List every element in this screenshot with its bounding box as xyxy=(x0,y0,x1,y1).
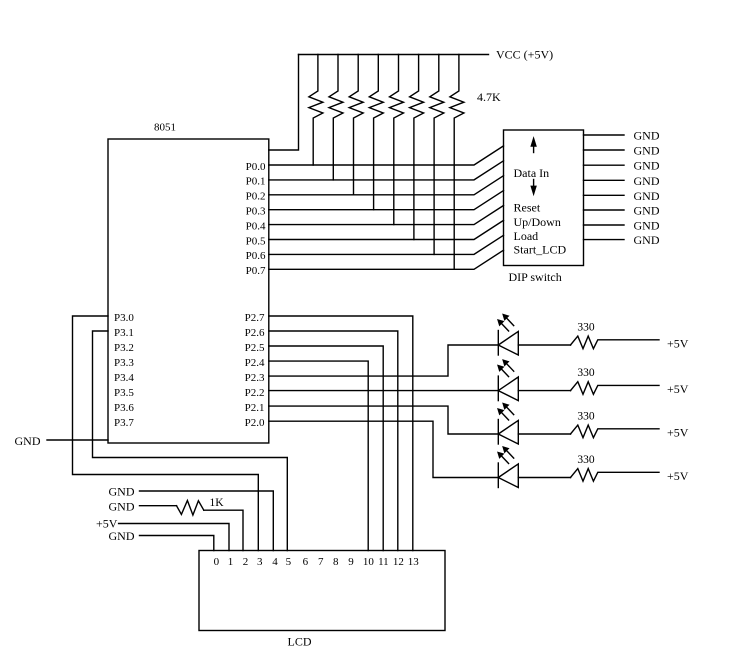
resistor R10 330 xyxy=(571,382,660,395)
wire GND to LCD pin 4 xyxy=(140,491,274,551)
resistor R7 4.7K pull-up xyxy=(430,55,444,255)
wire P0.3 to DIP switch xyxy=(269,191,504,210)
svg-text:3: 3 xyxy=(257,556,263,568)
resistor R1 4.7K pull-up xyxy=(309,55,323,166)
svg-text:330: 330 xyxy=(577,454,595,466)
LCD module xyxy=(199,551,445,631)
wire GND to LCD pin 0 xyxy=(140,536,214,551)
wire LED D2 to resistor xyxy=(518,390,570,392)
svg-text:GND: GND xyxy=(634,219,660,233)
arrow up (Data In) xyxy=(533,144,535,153)
svg-text:GND: GND xyxy=(15,434,41,448)
svg-text:P2.1: P2.1 xyxy=(245,402,265,414)
LED D4 xyxy=(498,447,518,487)
wire P2.7 to LCD pin 13 xyxy=(269,316,413,551)
svg-text:P2.6: P2.6 xyxy=(245,327,265,339)
wire GND to resistor 1K xyxy=(140,505,177,507)
resistor R2 4.7K pull-up xyxy=(329,55,343,180)
wire LED D4 to resistor xyxy=(518,477,570,479)
LED D1 xyxy=(498,315,518,355)
svg-text:GND: GND xyxy=(634,189,660,203)
wire DIP switch pin to GND 2 xyxy=(584,149,625,151)
svg-text:330: 330 xyxy=(577,410,595,422)
svg-text:Up/Down: Up/Down xyxy=(514,215,561,229)
svg-text:VCC (+5V): VCC (+5V) xyxy=(496,48,553,62)
svg-text:P0.6: P0.6 xyxy=(246,250,266,262)
svg-text:P2.3: P2.3 xyxy=(245,372,265,384)
resistor R6 4.7K pull-up xyxy=(410,55,424,240)
svg-text:P3.5: P3.5 xyxy=(114,387,134,399)
svg-text:P3.4: P3.4 xyxy=(114,372,134,384)
wire P0.6 to DIP switch xyxy=(269,235,504,254)
svg-text:P3.2: P3.2 xyxy=(114,342,134,354)
svg-text:+5V: +5V xyxy=(667,337,689,351)
svg-text:P3.7: P3.7 xyxy=(114,417,134,429)
wire P0.7 to DIP switch xyxy=(269,250,504,269)
svg-text:P2.7: P2.7 xyxy=(245,312,265,324)
wire P0.1 to DIP switch xyxy=(269,161,504,180)
wire P3.0 to LCD pin 3 xyxy=(73,316,259,551)
wire P2.5 to LCD pin 11 xyxy=(269,346,383,551)
svg-text:+5V: +5V xyxy=(667,426,689,440)
wire LED D1 to resistor xyxy=(518,344,570,346)
IC U1 8051 xyxy=(108,139,269,443)
wire P2.6 to LCD pin 12 xyxy=(269,331,398,551)
wire P2.0 to LED D4 xyxy=(269,421,499,477)
svg-text:5: 5 xyxy=(286,556,292,568)
LED D3 xyxy=(498,404,518,444)
resistor R3 4.7K pull-up xyxy=(349,55,363,195)
wire VCC rail xyxy=(299,54,489,56)
svg-text:GND: GND xyxy=(634,144,660,158)
wire P2.3 to LED D1 xyxy=(269,345,499,376)
svg-text:12: 12 xyxy=(393,556,404,568)
svg-text:P3.6: P3.6 xyxy=(114,402,134,414)
svg-text:9: 9 xyxy=(348,556,354,568)
resistor R12 330 xyxy=(571,469,660,482)
svg-text:Reset: Reset xyxy=(514,201,541,215)
svg-text:GND: GND xyxy=(634,174,660,188)
svg-text:GND: GND xyxy=(109,500,135,514)
svg-text:P0.4: P0.4 xyxy=(246,220,266,232)
svg-text:Data In: Data In xyxy=(514,166,550,180)
svg-text:GND: GND xyxy=(634,129,660,143)
svg-text:6: 6 xyxy=(303,556,309,568)
svg-text:P2.4: P2.4 xyxy=(245,357,265,369)
LED D2 xyxy=(498,360,518,400)
wire P0.2 to DIP switch xyxy=(269,176,504,195)
svg-text:P0.0: P0.0 xyxy=(246,161,266,173)
svg-text:+5V: +5V xyxy=(667,469,689,483)
resistor R9 330 xyxy=(571,336,660,349)
wire VCC rail to 8051 VCC pin xyxy=(269,55,299,151)
wire DIP switch pin to GND 3 xyxy=(584,164,625,166)
svg-text:P0.1: P0.1 xyxy=(246,176,266,188)
svg-text:Start_LCD: Start_LCD xyxy=(514,243,567,257)
wire P2.4 to LCD pin 10 xyxy=(269,361,368,550)
DIP switch S1 xyxy=(504,130,584,266)
svg-text:Load: Load xyxy=(514,229,539,243)
svg-text:DIP switch: DIP switch xyxy=(509,270,562,284)
svg-text:+5V: +5V xyxy=(667,382,689,396)
resistor R8 4.7K pull-up xyxy=(450,55,464,270)
wire DIP switch pin to GND 8 xyxy=(584,239,625,241)
svg-text:P3.1: P3.1 xyxy=(114,327,134,339)
svg-text:330: 330 xyxy=(577,367,595,379)
wire P2.1 to LED D3 xyxy=(269,406,499,434)
wire DIP switch pin to GND 4 xyxy=(584,179,625,181)
svg-text:4.7K: 4.7K xyxy=(477,90,501,104)
svg-text:P0.5: P0.5 xyxy=(246,235,266,247)
svg-text:GND: GND xyxy=(634,204,660,218)
svg-text:GND: GND xyxy=(634,233,660,247)
svg-text:P0.2: P0.2 xyxy=(246,191,266,203)
wire DIP switch pin to GND 5 xyxy=(584,194,625,196)
svg-text:13: 13 xyxy=(408,556,420,568)
wire resistor 1K to LCD pin 2 xyxy=(204,510,243,550)
arrow down (Data In) xyxy=(533,180,535,189)
resistor R13 1K xyxy=(177,501,204,516)
svg-text:0: 0 xyxy=(214,556,220,568)
svg-text:11: 11 xyxy=(378,556,389,568)
wire P0.5 to DIP switch xyxy=(269,220,504,239)
svg-text:P0.7: P0.7 xyxy=(246,265,266,277)
svg-text:P3.3: P3.3 xyxy=(114,357,134,369)
svg-text:1: 1 xyxy=(228,556,234,568)
resistor R4 4.7K pull-up xyxy=(369,55,383,210)
svg-text:LCD: LCD xyxy=(288,635,312,649)
wire P0.0 to DIP switch xyxy=(269,146,504,165)
svg-text:GND: GND xyxy=(634,159,660,173)
svg-text:P2.5: P2.5 xyxy=(245,342,265,354)
svg-text:1K: 1K xyxy=(210,497,225,509)
svg-text:P2.2: P2.2 xyxy=(245,387,265,399)
resistor R11 330 xyxy=(571,425,660,438)
svg-text:8: 8 xyxy=(333,556,339,568)
svg-text:8051: 8051 xyxy=(154,122,176,134)
svg-text:7: 7 xyxy=(318,556,324,568)
svg-text:P2.0: P2.0 xyxy=(245,417,265,429)
svg-text:330: 330 xyxy=(577,321,595,333)
wire P3.1 to LCD pin 5 xyxy=(93,331,288,551)
wire DIP switch pin to GND 1 xyxy=(584,134,625,136)
wire DIP switch pin to GND 7 xyxy=(584,224,625,226)
svg-text:GND: GND xyxy=(109,529,135,543)
svg-text:2: 2 xyxy=(243,556,249,568)
resistor R5 4.7K pull-up xyxy=(390,55,404,225)
svg-text:GND: GND xyxy=(109,485,135,499)
wire P2.2 to LED D2 xyxy=(269,390,499,392)
wire +5V to LCD pin 1 xyxy=(119,524,229,551)
wire GND to 8051 xyxy=(47,439,108,441)
svg-text:P0.3: P0.3 xyxy=(246,206,266,218)
svg-text:4: 4 xyxy=(272,556,278,568)
wire P0.4 to DIP switch xyxy=(269,206,504,225)
wire DIP switch pin to GND 6 xyxy=(584,209,625,211)
svg-text:P3.0: P3.0 xyxy=(114,312,134,324)
wire LED D3 to resistor xyxy=(518,433,570,435)
svg-text:10: 10 xyxy=(363,556,375,568)
